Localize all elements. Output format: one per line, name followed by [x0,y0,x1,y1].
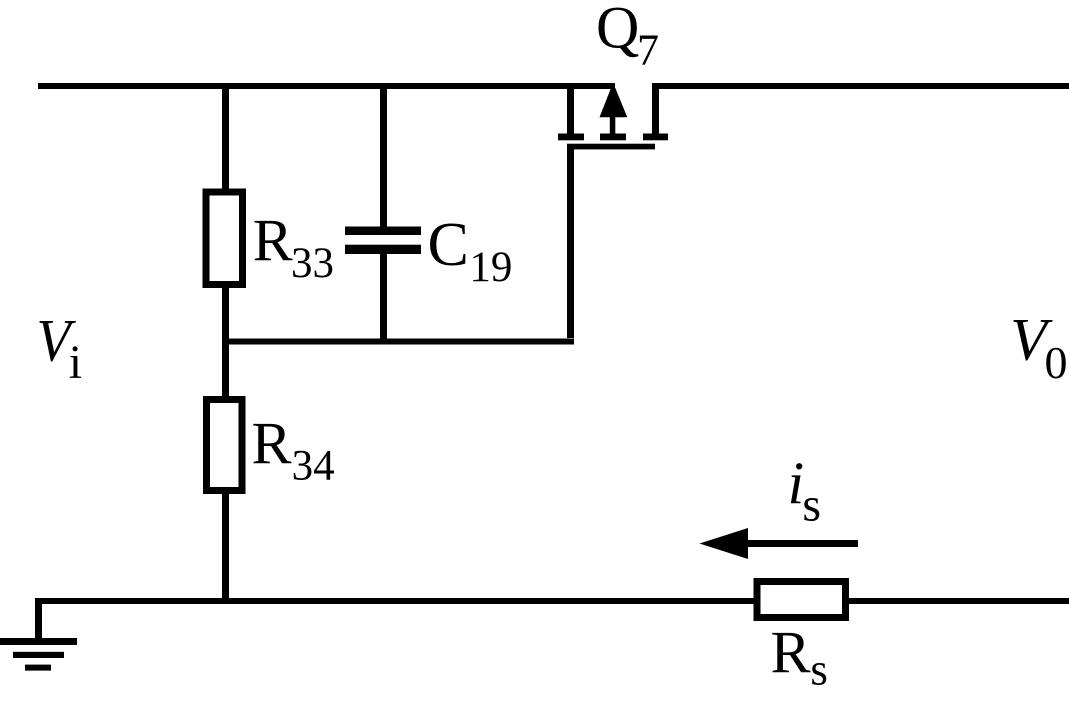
svg-text:7: 7 [637,26,659,75]
svg-text:C: C [428,211,469,279]
svg-text:R: R [771,620,811,686]
svg-text:R: R [252,411,292,477]
svg-text:19: 19 [469,244,512,291]
svg-text:s: s [810,645,828,695]
svg-text:R: R [253,208,293,274]
svg-text:s: s [802,479,821,532]
svg-text:i: i [69,336,82,389]
svg-text:34: 34 [292,443,335,490]
svg-text:0: 0 [1045,337,1068,388]
svg-text:33: 33 [291,240,334,287]
svg-text:Q: Q [596,0,639,61]
